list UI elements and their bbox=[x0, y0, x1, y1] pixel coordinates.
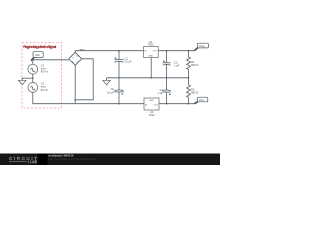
resistor R1 bbox=[187, 51, 199, 78]
minus rail bottom bbox=[75, 103, 144, 105]
wire V2 bottom bbox=[33, 92, 75, 103]
wire bridge right vertex down bbox=[75, 59, 93, 100]
wire V1 top stub bbox=[32, 60, 34, 65]
svg-text:GND: GND bbox=[149, 100, 154, 102]
net flag Vout+ bbox=[194, 43, 208, 51]
svg-text:7812: 7812 bbox=[148, 43, 154, 47]
voltage source V1 bbox=[28, 63, 49, 74]
capacitor C4 bbox=[158, 78, 171, 104]
node mid C3C4 bbox=[166, 77, 168, 79]
annotation region box bbox=[22, 43, 62, 108]
capacitor C2 bbox=[107, 78, 124, 104]
minus mid rail bbox=[107, 77, 189, 79]
svg-text:7912: 7912 bbox=[149, 113, 155, 117]
footer dark block bbox=[38, 154, 48, 166]
wire to ground 1 bbox=[22, 77, 33, 79]
node C3 top bbox=[166, 50, 168, 52]
bridge rectifier BR1 bbox=[69, 48, 86, 65]
ground GND2 bbox=[103, 78, 110, 85]
capacitor C3 bbox=[163, 51, 180, 78]
capacitor C1 bbox=[114, 51, 132, 78]
svg-text:10 µF: 10 µF bbox=[107, 90, 114, 94]
svg-text:1 µF: 1 µF bbox=[158, 91, 164, 95]
svg-text:OUT: OUT bbox=[153, 50, 158, 52]
node R2 bottom bbox=[188, 103, 190, 105]
svg-text:LAB: LAB bbox=[30, 160, 38, 164]
svg-text:60 Hz: 60 Hz bbox=[41, 70, 49, 74]
wire bridge bottom vertex down bbox=[74, 65, 76, 103]
svg-text:OUT: OUT bbox=[154, 104, 159, 106]
svg-text:htip://circuitlab.corn/c4e24y4: htip://circuitlab.corn/c4e24y43q07ba bbox=[48, 158, 96, 161]
svg-text:GND: GND bbox=[148, 56, 153, 58]
node center tap bbox=[32, 77, 34, 79]
wire V1-V2 center tap bbox=[32, 74, 34, 82]
svg-text:BR1: BR1 bbox=[80, 48, 86, 52]
svg-text:680 Ω: 680 Ω bbox=[191, 63, 198, 67]
svg-text:60 Hz: 60 Hz bbox=[41, 88, 49, 92]
voltage source V2 bbox=[28, 82, 49, 93]
node mid R1R2 bbox=[188, 77, 190, 79]
svg-text:Region ist gut beim Signal: Region ist gut beim Signal bbox=[23, 44, 56, 49]
footer logo CIRCUIT LAB bbox=[9, 156, 38, 164]
wire node A to bridge left bbox=[32, 59, 69, 61]
node bottom of bridge riser bbox=[74, 99, 76, 101]
ground GND1 bbox=[19, 78, 26, 85]
svg-text:680 Ω: 680 Ω bbox=[191, 91, 198, 95]
regulator U2 bbox=[144, 98, 159, 117]
net flag VAC bbox=[31, 52, 43, 61]
node R1 top bbox=[188, 50, 190, 52]
node mid C1C2 bbox=[118, 77, 120, 79]
footer text bbox=[48, 155, 96, 161]
svg-text:Vout+: Vout+ bbox=[199, 45, 206, 48]
node C1 top bbox=[118, 50, 120, 52]
plus rail right of U1 bbox=[158, 50, 194, 52]
svg-text:1 µF: 1 µF bbox=[174, 63, 180, 67]
svg-text:Vout-: Vout- bbox=[199, 99, 205, 102]
svg-text:10 µF: 10 µF bbox=[125, 59, 132, 63]
node C4 bottom bbox=[166, 103, 168, 105]
annotation red text bbox=[23, 44, 56, 49]
net flag Vout- bbox=[194, 97, 208, 104]
resistor R2 bbox=[187, 78, 199, 104]
wire U1 gnd riser bbox=[150, 58, 152, 78]
svg-text:VAC: VAC bbox=[35, 54, 40, 57]
wire bridge top to plus rail bbox=[75, 51, 143, 53]
regulator U1 bbox=[144, 40, 159, 58]
node mid U GND bbox=[150, 77, 152, 79]
node C2 bottom bbox=[118, 103, 120, 105]
footer bar bbox=[0, 154, 220, 166]
